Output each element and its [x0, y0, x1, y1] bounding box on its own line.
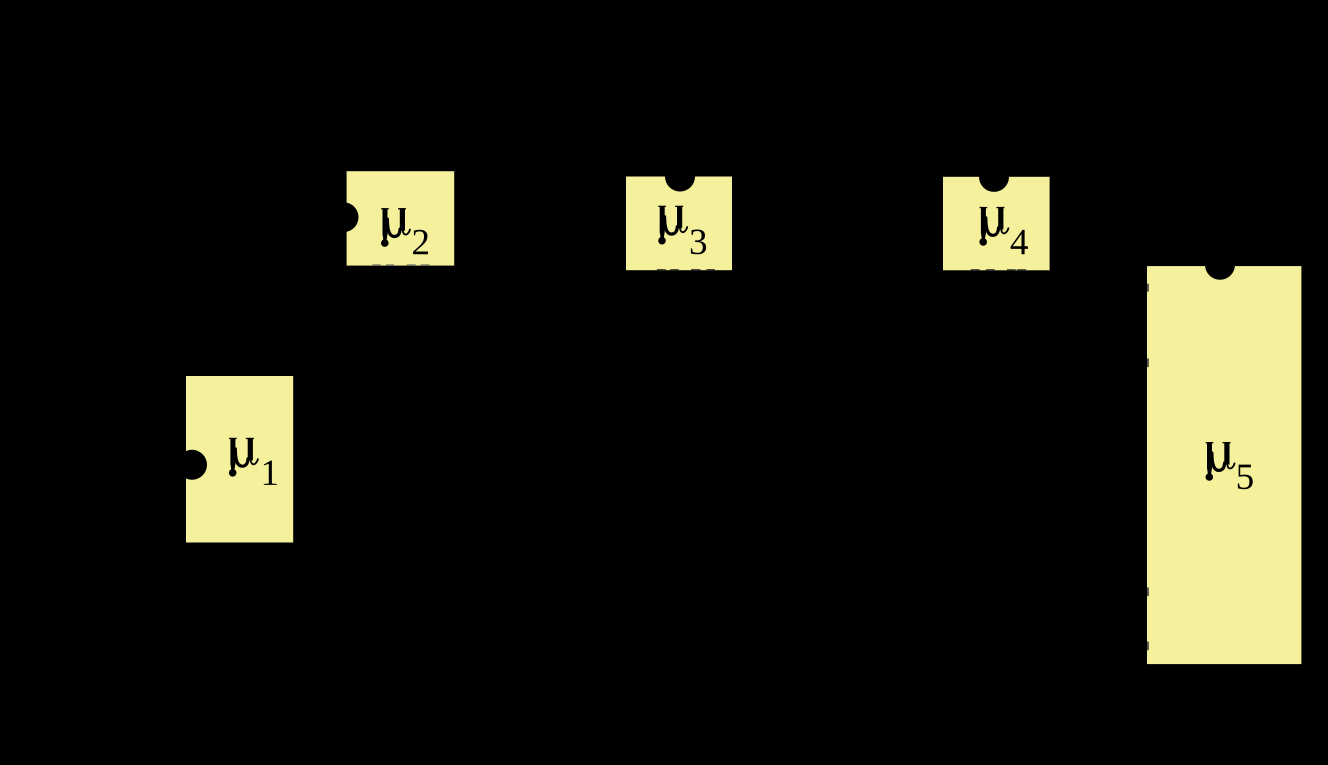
label mu1: [229, 438, 277, 485]
interval box mu5: [1147, 266, 1301, 664]
interval box mu3: [626, 177, 732, 271]
mean dot mu2: [329, 202, 359, 232]
mean dot mu5: [1205, 250, 1235, 280]
edge dash marks mu5 left: [1147, 284, 1149, 650]
label mu2: [381, 208, 428, 254]
dashed mark mu4 bottom: [971, 269, 1026, 270]
label mu4: [979, 207, 1028, 254]
dashed mark mu2 bottom: [372, 264, 429, 265]
mean dot mu3: [665, 162, 695, 192]
mean dot mu4: [979, 162, 1009, 192]
interval box mu1: [186, 376, 293, 543]
mean dot mu1: [177, 450, 207, 480]
dashed mark mu3 bottom: [657, 269, 715, 270]
interval box mu4: [943, 177, 1050, 270]
label mu3: [658, 206, 706, 255]
label mu5: [1206, 442, 1253, 489]
interval box mu2: [347, 171, 455, 265]
